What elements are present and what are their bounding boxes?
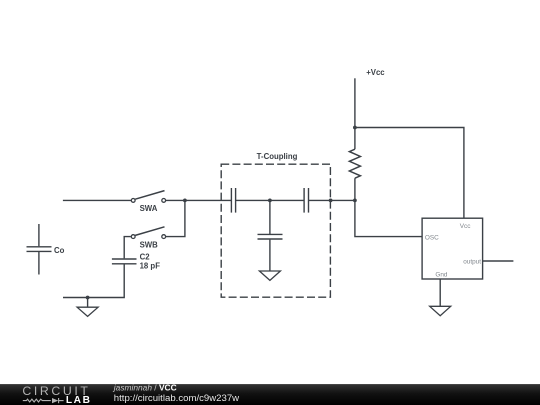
junction bbox=[353, 199, 357, 203]
junction bbox=[86, 296, 90, 300]
junction bbox=[268, 199, 272, 203]
svg-text:Vcc: Vcc bbox=[460, 223, 471, 230]
wire bbox=[355, 128, 464, 219]
svg-text:18 pF: 18 pF bbox=[140, 262, 161, 271]
junction (box boundary) bbox=[329, 199, 333, 203]
footer bar bbox=[0, 383, 540, 405]
wire bbox=[166, 199, 185, 201]
power +Vcc bbox=[355, 68, 385, 128]
svg-text:T-Coupling: T-Coupling bbox=[257, 152, 298, 161]
junction bbox=[353, 126, 357, 130]
svg-text:C2: C2 bbox=[140, 253, 151, 262]
wire bbox=[185, 199, 231, 201]
svg-text:jasminnah / VCC: jasminnah / VCC bbox=[113, 383, 177, 393]
wire bbox=[236, 199, 270, 201]
ground bbox=[430, 306, 451, 315]
svg-text:LAB: LAB bbox=[66, 395, 92, 405]
svg-text:SWB: SWB bbox=[140, 240, 159, 249]
wire bbox=[124, 237, 131, 259]
wire bbox=[309, 199, 355, 201]
capacitor (shunt, middle) bbox=[258, 200, 283, 271]
wire bbox=[483, 260, 514, 262]
wire bbox=[439, 279, 441, 306]
svg-text:output: output bbox=[463, 259, 481, 266]
wire bbox=[355, 200, 422, 236]
capacitor C2 bbox=[112, 253, 160, 271]
capacitor Co bbox=[27, 224, 65, 275]
wire bbox=[63, 199, 131, 201]
svg-text:Co: Co bbox=[54, 246, 65, 255]
resistor R1 bbox=[349, 128, 360, 201]
wire bbox=[63, 264, 124, 297]
ground bbox=[77, 298, 98, 317]
svg-text:http://circuitlab.com/c9w237w: http://circuitlab.com/c9w237w bbox=[114, 393, 239, 404]
dashed box T-Coupling bbox=[221, 152, 330, 297]
svg-text:Gnd: Gnd bbox=[435, 271, 448, 278]
svg-text:SWA: SWA bbox=[140, 204, 158, 213]
switch SWA bbox=[131, 191, 165, 214]
switch SWB bbox=[131, 227, 165, 250]
capacitor C3 (series, right) bbox=[304, 188, 308, 213]
ground bbox=[259, 271, 280, 280]
svg-text:+Vcc: +Vcc bbox=[366, 68, 385, 77]
IC U1 bbox=[422, 218, 483, 279]
wire bbox=[166, 200, 185, 236]
junction bbox=[183, 199, 187, 203]
svg-text:OSC: OSC bbox=[425, 234, 439, 241]
capacitor C1 (series, left) bbox=[231, 188, 235, 213]
wire bbox=[270, 199, 304, 201]
